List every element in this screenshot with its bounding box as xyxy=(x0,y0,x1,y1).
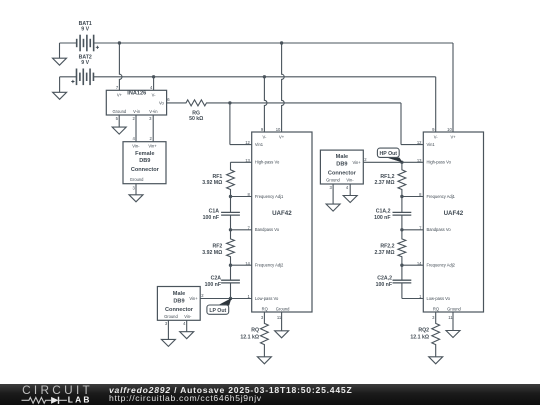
pin label V- of U2 xyxy=(434,134,439,139)
label RF2,2 value 2.37 MOhm xyxy=(374,250,394,256)
label RG xyxy=(192,111,200,117)
wire V+ rail from BAT1 to right xyxy=(94,42,453,44)
pin label Vin- of J1 xyxy=(132,143,140,148)
svg-text:HP Out: HP Out xyxy=(380,151,398,157)
resistor RF2 xyxy=(227,230,235,265)
resistor RQ xyxy=(261,312,269,357)
svg-text:LAB: LAB xyxy=(68,395,92,405)
wire INA126 pin 2 to DB9 J1 pin 4 xyxy=(135,115,137,142)
svg-text:RF2,2: RF2,2 xyxy=(380,243,394,249)
svg-text:Low-pass Vo: Low-pass Vo xyxy=(427,296,451,301)
pin 12 number of U2 xyxy=(417,140,422,145)
pin 1 number of U2 xyxy=(419,294,422,299)
svg-text:3.92 MΩ: 3.92 MΩ xyxy=(202,180,222,186)
pin 2 number of J1 xyxy=(149,136,152,141)
wire V- rail drop to UAF42 U2 pin 9 xyxy=(435,77,437,132)
pin 11 number of U2 xyxy=(448,315,453,320)
label RF2,2 xyxy=(380,243,394,249)
pin label V+ of U1 xyxy=(279,134,285,139)
wire BAT1 minus to ground xyxy=(59,43,61,58)
svg-text:RF1,2: RF1,2 xyxy=(380,174,394,180)
label INA126 xyxy=(127,90,146,96)
label RG value 50 kOhm xyxy=(189,116,203,122)
wire U2 ground pin xyxy=(452,312,454,331)
junction node on V- rail at UAF42 U1 pin 9 xyxy=(263,75,266,78)
junction node Bandpass Vo of U1 xyxy=(229,228,232,231)
wire Bandpass Vo of U2 xyxy=(402,229,423,231)
pin label V+ of INA126 xyxy=(117,92,123,97)
CircuitLab logo diode symbol xyxy=(51,397,58,404)
pin label High-pass Vo of U2 xyxy=(427,160,452,165)
junction node Frequency Adj2 of U2 xyxy=(400,264,403,267)
svg-text:INA126: INA126 xyxy=(127,90,146,96)
label C1A,2 value 100 nF xyxy=(374,215,390,221)
svg-text:Connector: Connector xyxy=(328,170,357,176)
pin label Vin- of P1 xyxy=(184,314,192,319)
pin 2 number of INA126 xyxy=(132,116,135,121)
svg-text:12: 12 xyxy=(417,140,422,145)
resistor RF1,2 xyxy=(398,162,406,196)
svg-text:100 nF: 100 nF xyxy=(376,282,392,288)
svg-text:10: 10 xyxy=(447,127,452,132)
pin 8 number of U1 xyxy=(248,192,251,197)
svg-text:2.37 MΩ: 2.37 MΩ xyxy=(374,250,394,256)
pin label RQ of U1 xyxy=(262,307,268,312)
wire V- rail from BAT2 to right xyxy=(94,76,436,78)
svg-text:2.37 MΩ: 2.37 MΩ xyxy=(374,180,394,186)
junction node on V- rail at INA126 pin 4 xyxy=(152,75,155,78)
ground for INA126 pin 5 xyxy=(112,127,126,134)
svg-text:Ground: Ground xyxy=(276,307,290,312)
pin 1 number of U1 xyxy=(248,294,251,299)
wire Frequency Adj2 of U2 xyxy=(402,264,423,266)
junction node Frequency Adj1 of U1 xyxy=(229,195,232,198)
wire P2 pin 3 to ground xyxy=(332,184,334,204)
label BAT1 value 9 V xyxy=(81,26,89,32)
wire Vo net to second filter xyxy=(230,102,401,104)
svg-text:Vin-: Vin- xyxy=(184,314,192,319)
pin label Ground of P1 xyxy=(164,314,178,319)
label Male of P1 xyxy=(173,291,185,297)
svg-text:Male: Male xyxy=(173,291,185,297)
pin label Frequency Adj2 of U1 xyxy=(255,263,284,268)
junction node on V+ rail at INA126 pin 7 xyxy=(118,41,121,44)
op-amp U1 UAF42 body xyxy=(252,132,312,312)
label RF1 value 3.92 MOhm xyxy=(202,180,222,186)
wire BAT2 plus to ground xyxy=(59,77,61,93)
svg-text:Ground: Ground xyxy=(164,314,178,319)
ground for P1 pin 3 xyxy=(161,339,175,346)
wire P2 Vin+ to U2 high-pass xyxy=(363,161,423,163)
resistor RQ2 xyxy=(432,312,440,357)
pin 9 number of U1 xyxy=(261,127,264,132)
pin label Frequency Adj2 of U2 xyxy=(427,263,456,268)
wire Vo net drop to U1 Vin1 xyxy=(230,103,252,145)
pin 4 number of P2 xyxy=(346,185,349,190)
svg-text:Bandpass Vo: Bandpass Vo xyxy=(255,227,280,232)
label C1A xyxy=(209,209,220,215)
pin label V+ of U2 xyxy=(450,134,456,139)
junction node Frequency Adj2 of U1 xyxy=(229,264,232,267)
label Female xyxy=(135,151,154,157)
pin label V+in of INA126 xyxy=(149,109,158,114)
node flag LP Out pointer xyxy=(219,299,231,306)
svg-text:Vin+: Vin+ xyxy=(148,143,157,148)
svg-text:100 nF: 100 nF xyxy=(205,282,221,288)
label BAT1 xyxy=(79,21,92,27)
ground for U2 ground pin xyxy=(446,331,460,338)
pin 7 number of INA126 xyxy=(116,85,119,90)
label RF1,2 value 2.37 MOhm xyxy=(374,180,394,186)
pin 6 number of INA126 xyxy=(167,97,170,102)
capacitor C2A xyxy=(221,265,240,298)
svg-text:RQ: RQ xyxy=(251,327,259,333)
svg-text:50 kΩ: 50 kΩ xyxy=(189,116,203,122)
CircuitLab logo xyxy=(16,384,126,405)
svg-text:Frequency Adj1: Frequency Adj1 xyxy=(427,194,456,199)
pin 3 number of U2 xyxy=(432,315,435,320)
label C2A xyxy=(211,275,222,281)
svg-text:Vin1: Vin1 xyxy=(255,142,264,147)
svg-text:Vin+: Vin+ xyxy=(352,160,361,165)
svg-text:High-pass Vo: High-pass Vo xyxy=(427,160,452,165)
pin 4 number of INA126 xyxy=(150,85,153,90)
svg-text:Vin1: Vin1 xyxy=(427,142,436,147)
svg-text:DB9: DB9 xyxy=(139,158,150,164)
label C1A,2 xyxy=(376,209,391,215)
wire U1 ground pin xyxy=(281,312,283,331)
resistor RG xyxy=(167,100,230,106)
svg-text:V-: V- xyxy=(262,134,267,139)
svg-text:9 V: 9 V xyxy=(81,60,89,66)
svg-text:Vin+: Vin+ xyxy=(189,296,198,301)
wire Frequency Adj1 of U1 xyxy=(231,196,252,198)
svg-text:9 V: 9 V xyxy=(81,26,89,32)
connector P1 Male DB9 body xyxy=(157,287,200,321)
pin 3 number of U1 xyxy=(261,315,264,320)
svg-text:C2A: C2A xyxy=(211,275,222,281)
label C1A value 100 nF xyxy=(203,215,219,221)
ground for RQ xyxy=(257,357,271,364)
svg-text:V-in: V-in xyxy=(133,109,141,114)
resistor RF1 xyxy=(227,162,235,196)
pin 5 number of INA126 xyxy=(116,116,119,121)
label Connector xyxy=(131,167,160,173)
pin label Ground of P2 xyxy=(326,177,340,182)
pin label Vin1 of U1 xyxy=(255,142,264,147)
battery BAT2 xyxy=(60,69,94,86)
capacitor C1A,2 xyxy=(393,197,412,230)
pin 2 number of P2 xyxy=(364,157,367,162)
svg-text:V+: V+ xyxy=(279,134,285,139)
svg-text:Ground: Ground xyxy=(447,307,461,312)
battery BAT1 xyxy=(60,35,100,52)
wire V- rail to INA126 pin 4 xyxy=(153,77,155,91)
label C2A value 100 nF xyxy=(205,282,221,288)
CircuitLab logo resistor symbol xyxy=(22,397,52,403)
label C2A,2 xyxy=(377,275,392,281)
pin label Ground of U2 xyxy=(447,307,461,312)
pin label Bandpass Vo of U1 xyxy=(255,227,280,232)
node flag HP Out box xyxy=(377,148,399,157)
pin label Frequency Adj1 of U2 xyxy=(427,194,456,199)
svg-text:RQ: RQ xyxy=(433,307,439,312)
svg-text:12: 12 xyxy=(245,140,250,145)
pin label RQ of U2 xyxy=(433,307,439,312)
pin label Vin- of P2 xyxy=(346,177,354,182)
footer attribution line xyxy=(109,386,353,395)
pin 14 number of U1 xyxy=(245,261,250,266)
pin label Ground of U1 xyxy=(276,307,290,312)
wire U1 high-pass to RF1 column xyxy=(231,161,252,163)
svg-text:3.92 MΩ: 3.92 MΩ xyxy=(202,250,222,256)
wire Frequency Adj1 of U2 xyxy=(402,196,423,198)
capacitor C2A,2 xyxy=(393,265,412,298)
svg-text:12.1 kΩ: 12.1 kΩ xyxy=(240,334,259,340)
svg-text:RF1: RF1 xyxy=(212,174,222,180)
pin label Vin+ of P1 xyxy=(189,296,198,301)
svg-text:Frequency Adj2: Frequency Adj2 xyxy=(427,263,456,268)
label RQ xyxy=(251,327,259,333)
label C2A,2 value 100 nF xyxy=(376,282,392,288)
node flag LP Out text xyxy=(209,308,226,314)
wire P2 pin 4 to ground xyxy=(349,184,351,196)
svg-text:Female: Female xyxy=(135,151,154,157)
svg-text:Vin-: Vin- xyxy=(132,143,140,148)
svg-text:12.1 kΩ: 12.1 kΩ xyxy=(410,334,429,340)
pin 14 number of U2 xyxy=(417,261,422,266)
pin 2 number of P1 xyxy=(201,293,204,298)
svg-text:V-: V- xyxy=(152,92,157,97)
pin 4 number of J1 xyxy=(132,136,135,141)
pin 10 number of U1 xyxy=(276,127,281,132)
junction node Bandpass Vo of U2 xyxy=(400,228,403,231)
label RF1 xyxy=(212,174,222,180)
svg-text:Low-pass Vo: Low-pass Vo xyxy=(255,296,279,301)
wire Vo net drop to U2 Vin1 xyxy=(401,103,423,145)
node flag HP Out pointer xyxy=(389,158,402,162)
svg-text:Vin-: Vin- xyxy=(346,177,354,182)
junction node Vo net at U1 Vin1 drop xyxy=(228,101,231,104)
junction node LP Out xyxy=(229,297,232,300)
pin label Vin1 of U2 xyxy=(427,142,436,147)
wire J1 pin 3 to ground xyxy=(135,184,137,195)
label RQ value 12.1 kOhm xyxy=(240,334,259,340)
pin label Ground of J1 xyxy=(130,177,144,182)
wire P1 pin 4 to ground xyxy=(186,320,188,331)
pin label Low-pass Vo of U1 xyxy=(255,296,279,301)
wire P1 pin 3 to ground xyxy=(167,320,169,339)
pin 7 number of U2 xyxy=(419,225,422,230)
svg-text:100 nF: 100 nF xyxy=(374,215,390,221)
svg-text:Connector: Connector xyxy=(165,307,194,313)
pin label Ground of INA126 xyxy=(112,109,126,114)
svg-text:RQ2: RQ2 xyxy=(418,327,429,333)
pin label Vo of INA126 xyxy=(159,100,165,105)
svg-text:V+: V+ xyxy=(117,92,123,97)
label UAF42 of U1 xyxy=(272,210,292,217)
svg-text:V+in: V+in xyxy=(149,109,158,114)
ground for U1 ground pin xyxy=(275,331,289,338)
svg-text:10: 10 xyxy=(276,127,281,132)
svg-text:Frequency Adj1: Frequency Adj1 xyxy=(255,194,284,199)
ground for BAT1 xyxy=(53,58,67,65)
pin 4 number of P1 xyxy=(183,321,186,326)
ground for J1 pin 3 xyxy=(129,195,143,202)
footer url line xyxy=(109,394,262,403)
wire Low-pass Vo of U2 xyxy=(402,298,423,300)
label RF1,2 xyxy=(380,174,394,180)
label UAF42 of U2 xyxy=(444,210,464,217)
footer bar xyxy=(0,384,540,405)
pin 3 number of INA126 xyxy=(149,116,152,121)
resistor RF2,2 xyxy=(398,230,406,265)
label DB9 of P2 xyxy=(336,162,347,168)
capacitor C1A xyxy=(221,197,240,230)
connector J1 Female DB9 body xyxy=(123,142,166,184)
svg-text:Ground: Ground xyxy=(326,177,340,182)
svg-text:Ground: Ground xyxy=(130,177,144,182)
svg-text:V+: V+ xyxy=(450,134,456,139)
svg-text:Frequency Adj2: Frequency Adj2 xyxy=(255,263,284,268)
junction node HP Out xyxy=(400,161,403,164)
pin label V- of U1 xyxy=(262,134,267,139)
label Connector of P2 xyxy=(328,170,357,176)
svg-text:Bandpass Vo: Bandpass Vo xyxy=(427,227,452,232)
label Male of P2 xyxy=(336,154,348,160)
label RQ2 xyxy=(418,327,429,333)
svg-text:High-pass Vo: High-pass Vo xyxy=(255,160,280,165)
pin 10 number of U2 xyxy=(447,127,452,132)
wire V+ rail to UAF42 U1 pin 10 (hops over V- rail and Vo net) xyxy=(282,43,285,132)
svg-text:C2A,2: C2A,2 xyxy=(377,275,392,281)
node flag LP Out box xyxy=(207,305,229,314)
pin 3 number of P1 xyxy=(165,321,168,326)
svg-text:UAF42: UAF42 xyxy=(444,210,464,217)
pin label V-in of INA126 xyxy=(133,109,141,114)
svg-text:Ground: Ground xyxy=(112,109,126,114)
svg-text:Connector: Connector xyxy=(131,167,160,173)
ground for RQ2 xyxy=(429,357,443,364)
label RQ2 value 12.1 kOhm xyxy=(410,334,429,340)
label Connector of P1 xyxy=(165,307,194,313)
pin label Bandpass Vo of U2 xyxy=(427,227,452,232)
node flag HP Out text xyxy=(380,151,398,157)
pin 7 number of U1 xyxy=(248,225,251,230)
svg-text:100 nF: 100 nF xyxy=(203,215,219,221)
svg-text:LP Out: LP Out xyxy=(209,308,226,314)
svg-text:C1A: C1A xyxy=(209,209,220,215)
label BAT2 xyxy=(79,55,92,61)
wire V- rail to UAF42 U1 pin 9 (hops over Vo net) xyxy=(264,77,267,132)
svg-text:RQ: RQ xyxy=(262,307,268,312)
pin label Frequency Adj1 of U1 xyxy=(255,194,284,199)
connector P2 Male DB9 body xyxy=(320,150,363,184)
pin label V- of INA126 xyxy=(152,92,157,97)
svg-text:Male: Male xyxy=(336,154,348,160)
svg-text:UAF42: UAF42 xyxy=(272,210,292,217)
wire Frequency Adj2 of U1 xyxy=(231,264,252,266)
svg-text:DB9: DB9 xyxy=(336,162,347,168)
pin 12 number of U1 xyxy=(245,140,250,145)
label DB9 of P1 xyxy=(173,298,184,304)
svg-text:Vo: Vo xyxy=(159,100,165,105)
pin 13 number of U1 xyxy=(245,158,250,163)
pin label Low-pass Vo of U2 xyxy=(427,296,451,301)
pin label Vin+ of P2 xyxy=(352,160,361,165)
svg-text:DB9: DB9 xyxy=(173,298,184,304)
op-amp U2 UAF42 body xyxy=(423,132,483,312)
svg-text:C1A,2: C1A,2 xyxy=(376,209,391,215)
junction node Frequency Adj1 of U2 xyxy=(400,195,403,198)
wire Bandpass Vo of U1 xyxy=(231,229,252,231)
label RF2 xyxy=(212,243,222,249)
pin 11 number of U1 xyxy=(277,315,282,320)
ground for P1 pin 4 xyxy=(180,332,194,339)
pin 3 number of J1 xyxy=(132,186,135,191)
pin label High-pass Vo of U1 xyxy=(255,160,280,165)
wire INA126 pin 3 to DB9 J1 pin 2 xyxy=(152,115,154,142)
junction node on V+ rail at UAF42 U1 pin 10 xyxy=(280,41,283,44)
op-amp U3 INA126 body xyxy=(106,90,166,115)
ground for P2 pin 3 xyxy=(326,204,340,211)
label BAT2 value 9 V xyxy=(81,60,89,66)
wire V+ rail drop to UAF42 U2 pin 10 xyxy=(452,43,454,132)
label RF2 value 3.92 MOhm xyxy=(202,250,222,256)
label DB9 xyxy=(139,158,150,164)
wire V+ rail to INA126 pin 7 (hops over V- rail) xyxy=(119,43,122,90)
pin 13 number of U2 xyxy=(417,158,422,163)
pin 8 number of U2 xyxy=(419,192,422,197)
ground for P2 pin 4 xyxy=(343,196,357,203)
wire Low-pass Vo of U1 to connector P1 xyxy=(200,298,252,300)
wire INA126 pin 5 to ground xyxy=(118,115,120,127)
pin label Vin+ of J1 xyxy=(148,143,157,148)
svg-text:V-: V- xyxy=(434,134,439,139)
ground for BAT2 xyxy=(53,92,67,99)
svg-text:RF2: RF2 xyxy=(212,243,222,249)
pin 3 number of P2 xyxy=(330,185,333,190)
pin 9 number of U2 xyxy=(432,127,435,132)
